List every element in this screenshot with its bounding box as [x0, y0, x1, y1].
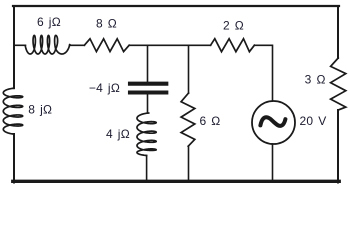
- wire R1 to node B (cap junction) and on to R2: [129, 44, 210, 46]
- resistor R2 2Ω: [211, 39, 255, 52]
- capacitor C1 bottom plate: [130, 90, 166, 94]
- wire L3 to bottom border: [146, 156, 148, 182]
- wire down to source V1: [272, 45, 274, 101]
- wire source V1 to bottom border: [272, 144, 274, 181]
- wire R3 to bottom border: [188, 146, 190, 181]
- resistor R4 3Ω (right border): [331, 58, 346, 110]
- source V1 AC circle: [252, 101, 295, 144]
- source V1 sine symbol: [260, 117, 285, 126]
- wire left border lower segment: [13, 134, 15, 183]
- svg-text:8 Ω: 8 Ω: [96, 16, 117, 30]
- wire L1 to R1: [70, 44, 85, 46]
- svg-text:−4 jΩ: −4 jΩ: [89, 81, 120, 95]
- wire left border upper segment: [13, 6, 15, 88]
- svg-text:20 V: 20 V: [299, 114, 326, 128]
- wire top border: [13, 5, 339, 7]
- svg-text:3 Ω: 3 Ω: [305, 73, 326, 87]
- inductor L3 4jΩ: [137, 113, 156, 156]
- svg-text:8 jΩ: 8 jΩ: [28, 103, 52, 117]
- wire node B to R3 top: [188, 45, 190, 93]
- svg-text:4 jΩ: 4 jΩ: [106, 127, 130, 141]
- svg-text:6 Ω: 6 Ω: [199, 114, 220, 128]
- wire capacitor to L3: [147, 95, 149, 114]
- inductor L2 8jΩ (left border): [3, 88, 22, 134]
- wire right border upper segment: [337, 6, 339, 58]
- resistor R1 8Ω: [84, 39, 129, 52]
- inductor L1 6jΩ: [25, 35, 69, 54]
- wire from left border to L1: [14, 44, 26, 46]
- wire right border lower segment: [337, 110, 339, 183]
- svg-text:2 Ω: 2 Ω: [223, 19, 244, 33]
- wire R2 to source branch corner: [254, 44, 272, 46]
- svg-text:6 jΩ: 6 jΩ: [37, 15, 61, 29]
- capacitor C1 -4jΩ top plate: [130, 82, 166, 86]
- resistor R3 6Ω: [181, 93, 195, 146]
- wire bottom border: [13, 180, 339, 183]
- wire node B down to capacitor: [147, 45, 149, 81]
